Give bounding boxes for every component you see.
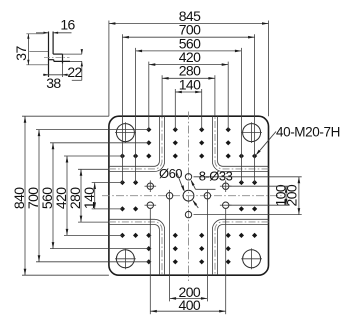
detail centerline <box>44 56 70 58</box>
svg-text:16: 16 <box>60 17 75 33</box>
left extension lines <box>22 115 109 117</box>
dimension 700 (left) <box>38 130 40 262</box>
crosshair stubs for outer D33 holes <box>145 185 157 187</box>
dimension 140 (top) <box>175 91 201 93</box>
svg-text:200: 200 <box>284 184 300 206</box>
dimension 22 (detail) <box>81 51 83 55</box>
dimension 420 (left) <box>66 156 68 235</box>
dimension 845 (top) <box>109 23 269 25</box>
center hole D60 <box>183 190 194 201</box>
dimension 16 (detail) <box>36 32 49 34</box>
tie-bar hole top-left <box>116 124 134 142</box>
dimension 37 (detail) <box>27 34 29 65</box>
hole D33 #1 <box>185 174 191 180</box>
dimension 840 (left) <box>24 116 26 275</box>
dimension 200 (bottom) <box>170 297 208 299</box>
T-slot detail profile <box>48 32 50 78</box>
dimension 560 (top) <box>136 50 242 52</box>
hole D33 #8 <box>223 202 229 208</box>
tie-bar hole top-right <box>243 124 261 142</box>
vertical centerline <box>188 112 190 282</box>
horizontal centerline <box>102 195 282 197</box>
hole D33 #3 <box>166 193 172 199</box>
svg-text:140: 140 <box>179 76 201 92</box>
dimension 140 (left) <box>94 183 96 209</box>
hole D33 #5 <box>147 183 153 189</box>
dimension 700 (top) <box>122 36 254 38</box>
svg-text:38: 38 <box>46 75 61 91</box>
dimension 400 (bottom) <box>150 310 225 312</box>
tie-bar hole bottom-right <box>243 250 261 268</box>
hole D33 #2 <box>185 211 191 217</box>
svg-text:140: 140 <box>81 187 97 209</box>
dimension 420 (top) <box>149 64 228 66</box>
svg-text:37: 37 <box>13 46 29 61</box>
svg-text:8-Ø33: 8-Ø33 <box>199 168 233 183</box>
hole D33 #6 <box>147 202 153 208</box>
top-right pad edge <box>218 116 269 166</box>
leader tail other side of D60 <box>193 201 198 208</box>
hole D33 #4 <box>204 193 210 199</box>
tie-bar hole bottom-left <box>116 250 134 268</box>
dimension 280 (top) <box>162 77 215 79</box>
dimension 38 (detail) <box>43 74 69 76</box>
dimension 560 (left) <box>52 143 54 249</box>
top extension lines <box>108 21 110 117</box>
svg-text:40-M20-7H: 40-M20-7H <box>276 124 340 139</box>
platen plate outline <box>109 116 269 275</box>
40x M20 tapped holes (diamond symbols) <box>173 127 178 132</box>
detail extension lines <box>63 53 83 55</box>
bottom-right pad edge <box>218 225 269 276</box>
dimension 280 (left) <box>80 169 82 222</box>
top-left pad edge <box>109 116 159 166</box>
svg-text:400: 400 <box>179 297 201 313</box>
svg-text:22: 22 <box>67 64 82 80</box>
dimension 100 (right) <box>285 186 287 205</box>
bottom extension lines <box>169 199 171 301</box>
hole D33 #7 <box>223 183 229 189</box>
bottom-left pad edge <box>109 225 159 276</box>
dimension 200 (right) <box>298 177 300 215</box>
right extension lines <box>229 185 289 187</box>
